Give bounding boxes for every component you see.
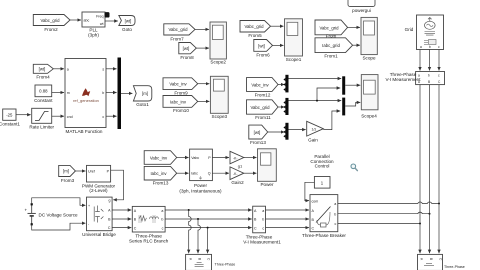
wire From9 to Scope3	[198, 83, 210, 85]
wire RLC b to VI1 B (bus line 2)	[165, 218, 252, 220]
svg-text:From4: From4	[36, 75, 50, 80]
wire Gain to Mux B in2	[323, 111, 340, 130]
constant Constant (0.88)	[34, 85, 53, 103]
Goto tag [wt]	[119, 16, 135, 33]
wire From to Scope	[348, 26, 360, 28]
svg-text:V-I Measurement1: V-I Measurement1	[243, 240, 281, 245]
svg-text:From1: From1	[324, 54, 338, 59]
svg-text:[wt]: [wt]	[39, 67, 46, 72]
From From10 (Iabc_inv)	[163, 96, 198, 114]
junction dot drop A	[188, 209, 190, 211]
wire Gain2 to Power scope	[244, 172, 257, 174]
svg-text:Vabc_inv: Vabc_inv	[150, 155, 168, 160]
wire PLL wt to Goto	[105, 20, 118, 22]
From From1 (Iabc_grid)	[315, 38, 353, 59]
From From3 ([m])	[59, 165, 76, 182]
svg-text:Scope: Scope	[362, 56, 375, 61]
svg-text:Vabc_inv: Vabc_inv	[251, 82, 269, 87]
svg-text:Freq: Freq	[96, 14, 103, 18]
wire VI A down to load (long vertical)	[419, 85, 421, 254]
svg-text:Iabc: Iabc	[191, 171, 198, 175]
From From4 ([wt])	[33, 64, 53, 79]
svg-text:Vabc_grid: Vabc_grid	[40, 18, 60, 23]
wire From5 to Scope1	[271, 25, 284, 27]
junction dot	[316, 100, 318, 102]
From From13 ([wt])	[249, 125, 268, 145]
block Rate Limiter	[29, 108, 54, 129]
svg-text:-K-: -K-	[233, 172, 238, 176]
svg-text:Iabc_inv: Iabc_inv	[150, 171, 167, 176]
wire DC+ to bridge +	[32, 198, 86, 206]
wire RLC c to VI1 C (bus line 3)	[165, 227, 252, 229]
junction dot breaker c	[419, 223, 421, 225]
wire breaker b to grid bus B (with hop)	[338, 212, 430, 214]
svg-text:Three-Phase: Three-Phase	[215, 262, 236, 266]
svg-text:From11: From11	[255, 115, 271, 120]
block Power (3ph, Instantaneous)	[179, 149, 222, 193]
svg-text:c: c	[102, 115, 104, 119]
svg-text:0.88: 0.88	[39, 89, 48, 94]
demux Demux3 (black bar)	[283, 123, 288, 140]
svg-text:+: +	[25, 208, 28, 213]
svg-text:From5: From5	[248, 33, 262, 38]
svg-text:Rate Limiter: Rate Limiter	[29, 125, 54, 130]
svg-text:DC Voltage Source: DC Voltage Source	[39, 213, 79, 218]
constant Constant1 (-25)	[0, 109, 20, 127]
svg-text:g: g	[109, 199, 111, 203]
svg-text:c: c	[335, 222, 337, 226]
svg-text:From8: From8	[180, 55, 194, 60]
svg-text:+: +	[88, 204, 90, 208]
scope Scope3	[210, 76, 228, 119]
wire VI B down to load (long vertical)	[429, 85, 431, 254]
wire bridge C to RLC C	[112, 227, 131, 229]
wire VI1 b to breaker B	[266, 218, 310, 220]
svg-text:Scope2: Scope2	[210, 60, 226, 65]
svg-text:C: C	[108, 226, 111, 230]
svg-text:Vabc_grid: Vabc_grid	[319, 25, 339, 30]
svg-text:Iabc_inv: Iabc_inv	[170, 99, 187, 104]
svg-text:C: C	[254, 226, 257, 230]
svg-text:(3ph, Instantaneous): (3ph, Instantaneous)	[179, 188, 222, 193]
wire From11 to Demux2	[278, 106, 284, 108]
mux Mux (tall black bar)	[118, 58, 122, 130]
svg-text:From13: From13	[153, 181, 169, 186]
wire breaker a to grid bus C (with hops)	[338, 202, 439, 204]
wire From4 to MATLAB Function in1	[53, 68, 64, 70]
wire grid b down to VI	[429, 50, 431, 71]
svg-text:wt: wt	[100, 22, 104, 26]
wire From13 to Demux3	[268, 131, 285, 133]
svg-text:Q: Q	[208, 171, 211, 175]
svg-text:Power: Power	[260, 182, 273, 187]
wire Constant1 to Rate Limiter	[16, 114, 31, 116]
svg-text:a: a	[67, 67, 69, 71]
svg-text:Series RLC Branch: Series RLC Branch	[129, 238, 169, 243]
scope Scope4	[361, 75, 378, 119]
From From12 (Vabc_inv)	[247, 78, 279, 98]
svg-text:[wt]: [wt]	[183, 46, 190, 51]
block Three-Phase load (bottom right, cut off)	[418, 254, 465, 270]
wire From2 to PLL	[70, 19, 81, 21]
wire From8 to Scope2	[196, 47, 209, 49]
block Three-Phase Breaker	[302, 195, 346, 238]
magnifier cursor icon	[351, 164, 357, 171]
scope Power	[258, 149, 277, 187]
svg-text:MATLAB Function: MATLAB Function	[66, 129, 103, 134]
svg-text:b: b	[428, 74, 430, 78]
junction dot drop C	[207, 227, 209, 229]
Goto tag Goto1 [m]	[133, 86, 151, 108]
DC Voltage Source (battery)	[25, 203, 79, 225]
svg-text:Vabc_grid: Vabc_grid	[168, 27, 188, 32]
From From8 ([wt])	[179, 43, 197, 60]
wire From12 to Demux1	[278, 84, 284, 86]
svg-text:a: a	[262, 209, 264, 213]
svg-text:ref_generation: ref_generation	[73, 98, 99, 103]
block Three-Phase load (bottom, cut off)	[186, 254, 236, 270]
wire From7 to Scope2	[195, 28, 209, 30]
svg-text:b: b	[102, 91, 104, 95]
wire drop B to load (with hop)	[198, 219, 201, 253]
svg-text:B: B	[428, 80, 430, 84]
wire drop A to load (with hops)	[189, 210, 192, 253]
From From2 (Vabc_grid tag)	[33, 15, 70, 33]
wire RLC a to VI1 A (bus line 1)	[165, 209, 252, 211]
svg-text:From9: From9	[174, 90, 188, 95]
svg-text:-25: -25	[6, 113, 13, 118]
wire MuxB to Scope4	[345, 102, 360, 106]
wire Mux to Goto1	[121, 92, 132, 94]
block PWM Generator (2-Level)	[82, 165, 116, 193]
svg-text:m: m	[67, 91, 70, 95]
svg-text:c: c	[262, 226, 264, 230]
From From9 (Vabc_inv)	[163, 78, 198, 96]
wire drop C to load	[207, 228, 209, 254]
svg-text:Scope3: Scope3	[212, 114, 228, 119]
svg-text:Three-Phase: Three-Phase	[444, 265, 465, 269]
svg-text:Uref: Uref	[88, 170, 95, 174]
gain Gain (triangle)	[307, 121, 324, 142]
svg-text:powergui: powergui	[352, 8, 371, 13]
svg-text:C: C	[134, 226, 137, 230]
From From15 (Iabc_inv)	[144, 166, 177, 185]
wire Power Q to Gain2	[212, 172, 229, 174]
wire branch up to Mux A in2	[317, 88, 340, 101]
svg-text:Iabc_grid: Iabc_grid	[322, 43, 340, 48]
wire MuxA to Scope4	[345, 84, 360, 86]
wire Demux3 to Gain	[289, 129, 306, 131]
svg-text:Vabc_inv: Vabc_inv	[169, 82, 187, 87]
label Parallel Connection Control	[310, 154, 334, 169]
svg-text:Goto: Goto	[122, 27, 132, 32]
svg-text:Constant1: Constant1	[0, 122, 20, 127]
block MATLAB Function (ref_generation)	[65, 59, 106, 134]
wire From15 to Power Iabc	[177, 172, 189, 174]
wire VI C down to load (long vertical)	[438, 85, 440, 254]
junction dot breaker b	[429, 213, 431, 215]
svg-text:b: b	[429, 45, 431, 49]
mux MuxA (black bar)	[342, 76, 345, 94]
wire grid a down to VI	[419, 50, 421, 71]
svg-text:1/z: 1/z	[312, 128, 317, 132]
svg-text:c: c	[162, 226, 164, 230]
wire grid c down to VI	[438, 50, 440, 71]
svg-text:b: b	[262, 218, 264, 222]
demux Demux2 (black bar)	[283, 98, 288, 115]
svg-text:V-I Measurement: V-I Measurement	[386, 77, 422, 82]
wire breaker c to grid bus A	[338, 223, 420, 225]
block Grid (three-phase source)	[405, 15, 444, 50]
svg-text:com: com	[312, 199, 319, 203]
gain Gain1 (triangle)	[230, 151, 244, 168]
svg-text:(3ph): (3ph)	[88, 32, 99, 37]
junction dot breaker a	[438, 203, 440, 205]
wire From10 to Scope3	[198, 100, 210, 102]
wire branch to Mux B in1	[317, 100, 341, 102]
From From7 (Vabc_grid)	[164, 24, 195, 42]
wire VI1 c to breaker C	[266, 227, 310, 229]
wire PWM P to Universal Bridge g	[111, 170, 124, 200]
svg-text:From7: From7	[170, 37, 184, 42]
svg-text:From13: From13	[250, 140, 266, 145]
wire Power P to Gain1	[212, 157, 229, 159]
svg-text:Gain2: Gain2	[231, 180, 244, 185]
wire DC- to bridge -	[32, 223, 86, 230]
scope Scope2	[210, 22, 226, 65]
wire From1 to Scope	[353, 44, 360, 46]
svg-text:From3: From3	[61, 178, 75, 183]
svg-text:From10: From10	[173, 108, 189, 113]
svg-text:C: C	[312, 227, 315, 231]
svg-text:b: b	[161, 218, 163, 222]
svg-text:Vabc_grid: Vabc_grid	[244, 24, 264, 29]
svg-text:-K-: -K-	[233, 156, 238, 160]
svg-text:From12: From12	[255, 93, 271, 98]
From From (Vabc_grid)	[315, 20, 348, 38]
svg-text:[m]: [m]	[142, 91, 148, 96]
junction dot drop B	[197, 218, 199, 220]
svg-text:Scope4: Scope4	[361, 113, 377, 118]
scope Scope	[361, 17, 377, 60]
terminator on Freq output	[105, 13, 109, 17]
block Three-Phase V-I Measurement1	[243, 206, 281, 244]
svg-text:cnd: cnd	[67, 115, 73, 119]
svg-text:s: s	[102, 67, 104, 71]
svg-text:Vabc_grid: Vabc_grid	[250, 105, 270, 110]
wire From14 to Power Vabc	[177, 157, 189, 159]
svg-text:[wt]: [wt]	[125, 18, 132, 23]
wire From6 to Scope1	[273, 44, 284, 46]
block Three-Phase Series RLC Branch	[129, 206, 169, 243]
From From5 (Vabc_grid)	[240, 21, 271, 39]
svg-text:B: B	[198, 258, 202, 260]
From From6 ([wt])	[254, 40, 273, 58]
wire Rate Limiter to MATLAB Function in3	[52, 115, 64, 117]
svg-text:From6: From6	[256, 53, 270, 58]
From From14 (Vabc_inv)	[144, 151, 177, 165]
svg-text:Scope1: Scope1	[286, 57, 302, 62]
svg-text:Constant: Constant	[34, 98, 53, 103]
svg-text:From2: From2	[44, 27, 58, 32]
block Three-Phase V-I Measurement (grid)	[386, 72, 445, 85]
svg-text:Goto1: Goto1	[136, 102, 149, 107]
wire bridge A to RLC A	[112, 209, 131, 211]
wire From3 to PWM Generator	[75, 170, 85, 172]
svg-text:a: a	[420, 45, 422, 49]
svg-text:abc: abc	[84, 19, 90, 23]
svg-text:g1: g1	[238, 164, 243, 169]
svg-text:a: a	[161, 209, 163, 213]
svg-text:Three-Phase Breaker: Three-Phase Breaker	[302, 233, 346, 238]
svg-text:Control: Control	[315, 164, 330, 169]
svg-text:[m]: [m]	[63, 169, 69, 174]
svg-text:a: a	[334, 202, 336, 206]
svg-text:[wt]: [wt]	[254, 130, 261, 135]
svg-text:b: b	[334, 212, 336, 216]
constant 1 (breaker control)	[314, 177, 330, 189]
block Universal Bridge	[82, 197, 116, 237]
svg-text:Vabc: Vabc	[191, 156, 199, 160]
wire Gain1 to Power scope	[244, 157, 257, 159]
wire Constant to MATLAB Function in2	[52, 92, 64, 94]
svg-text:[wt]: [wt]	[258, 43, 265, 48]
svg-text:Grid: Grid	[405, 27, 414, 32]
scope Scope1	[285, 19, 303, 62]
wire bridge B to RLC B	[112, 218, 131, 220]
block PLL (3ph) U:PLL	[82, 12, 105, 37]
wire MATLAB Function out3 to Mux	[106, 115, 117, 117]
svg-text:Gain: Gain	[308, 138, 318, 143]
powergui block (cut off at top)	[348, 0, 375, 13]
svg-text:B: B	[429, 258, 433, 260]
wire Demux1 to Mux A in1	[289, 78, 342, 80]
wire MATLAB Function out2 to Mux	[106, 92, 117, 94]
wire VI1 a to breaker A	[266, 209, 310, 211]
mux MuxB (black bar)	[342, 98, 345, 116]
wire constant to breaker com	[305, 182, 315, 200]
svg-text:Universal Bridge: Universal Bridge	[82, 232, 116, 237]
wire MATLAB Function out1 to Mux	[106, 68, 117, 70]
demux Demux1 (black bar)	[283, 75, 288, 93]
From From11 (Vabc_grid)	[247, 100, 279, 120]
gain Gain2 (triangle)	[230, 167, 244, 185]
svg-text:(2-Level): (2-Level)	[89, 188, 108, 193]
wire Demux2 out with branch	[289, 100, 318, 102]
